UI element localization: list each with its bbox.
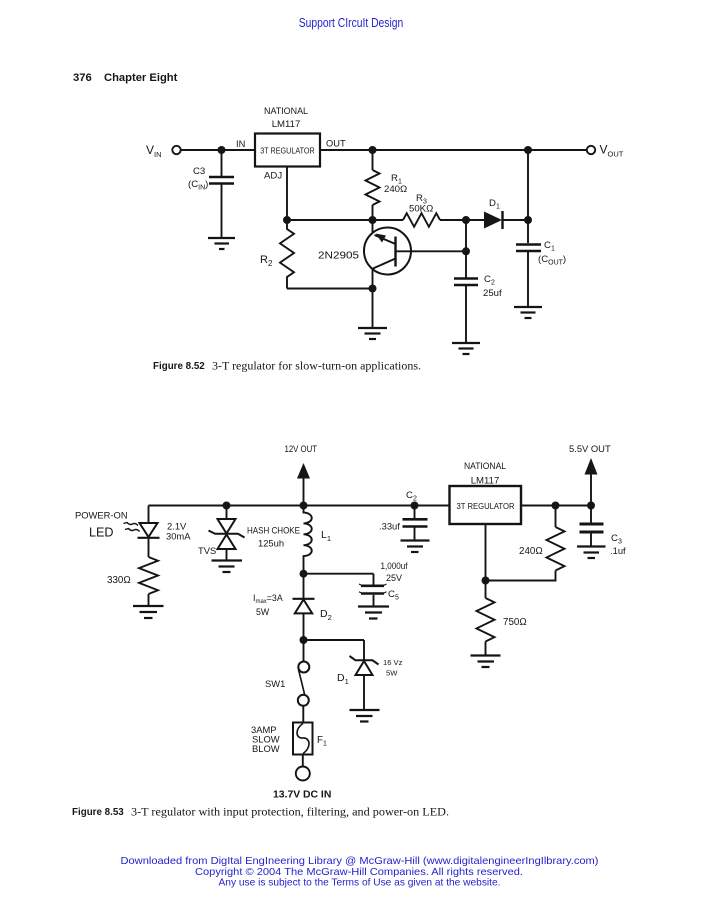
net 5.5V OUT arrow bbox=[585, 458, 598, 506]
TVS device bbox=[209, 506, 245, 560]
capacitor C5 bbox=[359, 574, 387, 606]
zener D1 bbox=[350, 656, 379, 709]
svg-text:R2: R2 bbox=[260, 254, 273, 268]
wire out to 240 bbox=[555, 506, 557, 528]
wire emitter bbox=[372, 220, 374, 234]
svg-text:HASH CHOKE: HASH CHOKE bbox=[247, 525, 300, 536]
svg-text:Copyright © 2004 The McGraw-Hi: Copyright © 2004 The McGraw-Hill Compani… bbox=[195, 867, 523, 878]
terminal VOUT bbox=[587, 146, 595, 154]
svg-text:330Ω: 330Ω bbox=[107, 575, 131, 586]
wire C1 to ground bbox=[527, 252, 529, 306]
svg-text:NATIONAL: NATIONAL bbox=[264, 106, 309, 117]
svg-text:750Ω: 750Ω bbox=[503, 617, 527, 628]
svg-text:C5: C5 bbox=[388, 589, 399, 602]
LED light arrows bbox=[124, 523, 140, 532]
inductor L1 hash choke bbox=[304, 506, 312, 574]
wire L1 junction to C5 bbox=[304, 573, 374, 575]
svg-text:Downloaded from DigItal EngIne: Downloaded from DigItal EngIneering Libr… bbox=[121, 856, 599, 867]
svg-text:NATIONAL: NATIONAL bbox=[464, 461, 507, 472]
label C2 25uf bbox=[483, 274, 502, 299]
svg-text:Figure 8.53: Figure 8.53 bbox=[72, 807, 124, 818]
svg-text:F1: F1 bbox=[317, 735, 327, 748]
label NATIONAL LM117 bbox=[264, 106, 309, 130]
label NATIONAL LM117 fig2 bbox=[464, 461, 507, 487]
svg-text:OUT: OUT bbox=[326, 139, 346, 149]
resistor 240ohm bbox=[547, 527, 565, 571]
net 12V OUT arrow bbox=[297, 463, 310, 506]
svg-text:12V OUT: 12V OUT bbox=[285, 443, 318, 454]
svg-text:LED: LED bbox=[89, 526, 114, 540]
wire base column down bbox=[465, 220, 467, 278]
svg-text:1,000uf: 1,000uf bbox=[381, 561, 408, 571]
footer copyright bbox=[121, 856, 599, 889]
svg-text:LM117: LM117 bbox=[272, 119, 301, 130]
ground under C3 bbox=[208, 238, 235, 249]
wire mid rail ADJ to R3 bbox=[287, 219, 403, 221]
svg-text:13.7V DC IN: 13.7V DC IN bbox=[273, 790, 331, 801]
ground under D1 bbox=[350, 710, 380, 722]
resistor R1 bbox=[366, 170, 380, 205]
svg-text:Imax=3A: Imax=3A bbox=[253, 593, 283, 605]
node ADJ junction fig2 bbox=[482, 577, 490, 585]
node R1 top junction bbox=[369, 146, 377, 154]
svg-text:Chapter Eight: Chapter Eight bbox=[104, 72, 178, 84]
svg-text:25V: 25V bbox=[386, 573, 402, 583]
LED diode bbox=[138, 523, 160, 538]
node C1 top junction bbox=[524, 146, 532, 154]
resistor 330ohm bbox=[139, 557, 158, 594]
label HASH CHOKE 125uh bbox=[247, 525, 300, 549]
svg-text:BLOW: BLOW bbox=[252, 743, 280, 754]
svg-text:30mA: 30mA bbox=[166, 531, 191, 542]
terminal 13.7V DC IN bbox=[296, 767, 310, 781]
wire D1 to C1 column bbox=[504, 219, 529, 221]
svg-text:VOUT: VOUT bbox=[600, 143, 624, 159]
wire 750 to ground bbox=[485, 642, 487, 655]
svg-text:SW1: SW1 bbox=[265, 678, 285, 689]
label 3AMP SLOW BLOW bbox=[251, 724, 280, 754]
label 16Vz 5W bbox=[383, 658, 403, 678]
wire C3 to ground bbox=[221, 185, 223, 238]
wire 240 bottom to adj rail bbox=[486, 571, 556, 581]
wire LED to resistor bbox=[148, 539, 150, 557]
svg-text:.33uf: .33uf bbox=[379, 521, 400, 532]
node 5.5V junction bbox=[587, 502, 595, 510]
svg-text:(CIN): (CIN) bbox=[188, 179, 208, 192]
svg-text:Support CIrcuIt Design: Support CIrcuIt Design bbox=[299, 16, 404, 30]
wire to D2 bbox=[303, 574, 305, 598]
node L1 bottom junction bbox=[300, 570, 308, 578]
svg-text:C3: C3 bbox=[193, 166, 205, 177]
ground under C2 bbox=[452, 343, 480, 354]
label C3 (CIN) bbox=[188, 166, 208, 192]
label Imax=3A 5W bbox=[253, 593, 283, 617]
svg-text:376: 376 bbox=[73, 72, 92, 84]
svg-text:3-T regulator with input prote: 3-T regulator with input protection, fil… bbox=[131, 806, 449, 819]
ground under LED resistor bbox=[133, 606, 164, 618]
svg-text:240Ω: 240Ω bbox=[384, 184, 407, 195]
wire VIN to IN pin bbox=[181, 149, 255, 151]
label 1,000uf 25V C5 bbox=[381, 561, 408, 602]
capacitor C2 bbox=[454, 277, 478, 280]
label R1 240ohm bbox=[384, 173, 407, 195]
resistor R3 bbox=[403, 213, 440, 227]
terminal VIN bbox=[172, 146, 180, 154]
node D2 bottom junction bbox=[300, 636, 308, 644]
ground under Q1 bbox=[358, 328, 387, 339]
node base junction top bbox=[462, 216, 470, 224]
svg-text:POWER-ON: POWER-ON bbox=[75, 510, 128, 521]
caption figure 8.52 bbox=[153, 360, 421, 373]
node 240 junction bbox=[552, 502, 560, 510]
wire collector bbox=[372, 269, 374, 327]
svg-text:(COUT): (COUT) bbox=[538, 254, 566, 267]
node TVS junction bbox=[223, 502, 231, 510]
capacitor C2 input bbox=[403, 506, 428, 540]
transistor Q1 2N2905 bbox=[364, 228, 411, 275]
wire 330 to ground bbox=[148, 594, 150, 605]
svg-text:.1uf: .1uf bbox=[610, 545, 626, 556]
resistor 750ohm bbox=[477, 598, 495, 642]
wire main input rail bbox=[149, 505, 450, 507]
wire C2 to ground bbox=[465, 286, 467, 342]
svg-text:D1: D1 bbox=[489, 198, 500, 211]
fuse F1 bbox=[293, 723, 313, 767]
svg-text:25uf: 25uf bbox=[483, 288, 502, 299]
wire ADJ pin down bbox=[485, 524, 487, 581]
svg-text:125uh: 125uh bbox=[258, 538, 284, 549]
svg-text:Figure 8.52: Figure 8.52 bbox=[153, 361, 205, 372]
switch SW1 bbox=[298, 640, 310, 723]
svg-text:L1: L1 bbox=[321, 529, 331, 543]
svg-text:Any use is subject to the Term: Any use is subject to the Terms of Use a… bbox=[219, 878, 501, 889]
svg-text:D1: D1 bbox=[337, 672, 349, 686]
svg-text:240Ω: 240Ω bbox=[519, 546, 543, 557]
svg-text:D2: D2 bbox=[320, 608, 332, 622]
node ADJ junction bbox=[283, 216, 291, 224]
wire ADJ down bbox=[286, 167, 288, 221]
wire R1 bottom bbox=[372, 205, 374, 220]
wire OUT to R1 bbox=[372, 150, 374, 170]
node input junction bbox=[218, 146, 226, 154]
svg-text:C1: C1 bbox=[544, 240, 555, 253]
svg-text:C2: C2 bbox=[406, 490, 417, 503]
caption figure 8.53 bbox=[72, 806, 449, 819]
node base junction bbox=[462, 247, 470, 255]
wire R3 to D1 bbox=[440, 219, 484, 221]
svg-text:3T REGULATOR: 3T REGULATOR bbox=[457, 501, 515, 511]
ground under C5 bbox=[358, 607, 389, 619]
svg-text:16 Vz: 16 Vz bbox=[383, 658, 403, 667]
wire regulator out bbox=[521, 505, 591, 507]
svg-text:3-T regulator for slow-turn-on: 3-T regulator for slow-turn-on applicati… bbox=[212, 360, 421, 373]
diode D2 bbox=[293, 599, 315, 640]
node 12V junction bbox=[300, 502, 308, 510]
label 2.1V 30mA bbox=[166, 521, 191, 542]
label R3 50Kohm bbox=[409, 193, 433, 215]
svg-text:5W: 5W bbox=[386, 669, 398, 678]
wire C3 branch bbox=[221, 150, 223, 176]
svg-text:C3: C3 bbox=[611, 533, 622, 546]
op IC U2 3T regulator box bbox=[450, 486, 522, 524]
node R1 bottom junction bbox=[369, 216, 377, 224]
svg-text:C2: C2 bbox=[484, 274, 495, 287]
capacitor C3 bbox=[580, 506, 604, 546]
svg-text:2N2905: 2N2905 bbox=[318, 251, 360, 262]
svg-text:TVS: TVS bbox=[198, 545, 216, 556]
wire D1 top bbox=[363, 640, 365, 660]
svg-text:VIN: VIN bbox=[146, 143, 162, 159]
ground under C3 bbox=[577, 547, 606, 559]
wire junction to D1 bbox=[304, 639, 365, 641]
wire C1 top bbox=[527, 150, 529, 243]
svg-text:ADJ: ADJ bbox=[264, 171, 282, 182]
wire OUT rail bbox=[320, 149, 587, 151]
ground under C1 bbox=[514, 307, 542, 318]
capacitor C3 bbox=[209, 176, 234, 179]
svg-text:5W: 5W bbox=[256, 607, 270, 617]
svg-text:50KΩ: 50KΩ bbox=[409, 204, 433, 215]
op IC U1 3T regulator box bbox=[255, 134, 320, 167]
ground under 750 bbox=[471, 656, 501, 668]
node C2 junction bbox=[411, 502, 419, 510]
label C3 .1uf bbox=[610, 533, 626, 556]
capacitor C1 bbox=[516, 243, 541, 246]
wire R2 to collector bbox=[287, 288, 373, 290]
svg-text:IN: IN bbox=[236, 139, 245, 149]
ground under C2 bbox=[401, 541, 430, 553]
resistor R2 bbox=[280, 220, 294, 289]
wire LED branch top bbox=[148, 506, 150, 524]
node collector junction bbox=[369, 285, 377, 293]
svg-text:5.5V OUT: 5.5V OUT bbox=[569, 443, 611, 454]
diode D1 bbox=[484, 211, 503, 229]
ground under TVS bbox=[212, 561, 243, 573]
label POWER-ON LED bbox=[75, 510, 128, 540]
wire adj to 750 bbox=[485, 581, 487, 599]
wire base to C2 column bbox=[396, 250, 467, 252]
svg-text:3T REGULATOR: 3T REGULATOR bbox=[260, 146, 315, 156]
node C1 junction bbox=[524, 216, 532, 224]
label C1 (COUT) bbox=[538, 240, 566, 267]
